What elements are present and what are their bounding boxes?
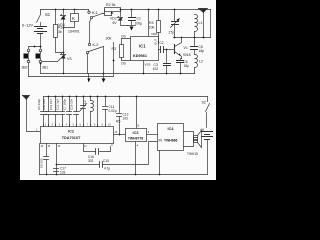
svg-text:C8 220: C8 220 <box>40 158 44 168</box>
svg-text:TWH666: TWH666 <box>164 139 177 143</box>
variable capacitor C19 <box>83 96 85 98</box>
resistor R3 <box>120 45 124 58</box>
capacitor C11 <box>55 96 57 98</box>
capacitor C1 <box>131 9 133 11</box>
wire bottom bus <box>40 174 208 176</box>
capacitor C6 <box>194 38 196 46</box>
wire K-1 pole down to K-2 <box>90 19 92 44</box>
svg-text:L1: L1 <box>199 21 203 25</box>
svg-text:103: 103 <box>60 171 66 175</box>
svg-text:103: 103 <box>123 117 129 121</box>
capacitor C2 <box>159 49 161 51</box>
svg-text:L2: L2 <box>199 60 203 64</box>
wire top bus <box>41 9 89 11</box>
wire IC2 pin down <box>56 144 58 175</box>
capacitor C16 bracket <box>84 144 111 152</box>
svg-text:C10 223: C10 223 <box>42 99 46 110</box>
inductor L1 <box>194 32 196 38</box>
capacitor C18 <box>76 96 78 98</box>
node VD1/K <box>63 27 65 29</box>
switch S2 <box>207 97 209 102</box>
wire lower ground line <box>41 73 195 75</box>
svg-text:C12 3p3: C12 3p3 <box>56 99 60 110</box>
capacitor C12 <box>62 96 64 98</box>
jack XS1 <box>39 49 42 52</box>
zener VD2 <box>120 9 122 11</box>
capacitor C3 <box>166 50 168 63</box>
svg-text:0.02µ: 0.02µ <box>109 109 117 113</box>
capacitor C17 <box>54 169 59 172</box>
svg-text:C7 180p: C7 180p <box>63 99 67 110</box>
wire tank line <box>174 37 211 39</box>
pin VSS <box>143 61 145 74</box>
svg-text:OUT: OUT <box>154 39 158 46</box>
IC1 KD9561 <box>148 9 150 11</box>
inductor L3 <box>90 96 92 98</box>
svg-text:VD2: VD2 <box>110 17 117 21</box>
svg-text:18p: 18p <box>199 49 205 53</box>
wire K-2 throw down <box>103 47 105 74</box>
svg-text:302: 302 <box>88 159 94 163</box>
svg-text:VD1: VD1 <box>58 23 65 27</box>
svg-text:OS: OS <box>121 35 126 39</box>
svg-text:30k: 30k <box>106 37 112 41</box>
svg-text:10k: 10k <box>149 26 155 30</box>
svg-text:100µ: 100µ <box>135 22 143 26</box>
svg-text:6V: 6V <box>113 21 118 25</box>
capacitor C5 <box>181 59 182 61</box>
svg-text:3B1: 3B1 <box>42 66 48 70</box>
svg-text:TDA7010T: TDA7010T <box>62 136 81 140</box>
svg-text:IC4: IC4 <box>168 127 175 131</box>
inductor L2 <box>194 50 196 55</box>
pin OS bottom <box>122 58 131 61</box>
antenna W2 <box>23 96 30 100</box>
white paper field <box>20 0 216 180</box>
svg-text:K: K <box>72 16 75 21</box>
wire jack XS2 down <box>28 63 30 77</box>
svg-text:6~12V: 6~12V <box>22 24 34 28</box>
ground under C1 <box>131 21 133 26</box>
svg-text:OS: OS <box>121 62 126 66</box>
capacitor C10 <box>48 96 50 98</box>
svg-text:IC2: IC2 <box>68 130 74 134</box>
capacitor C8 <box>46 144 48 157</box>
pin SEL stub <box>158 43 160 45</box>
svg-text:4.7µ: 4.7µ <box>104 167 110 171</box>
zener VD1 <box>63 9 65 11</box>
thyristor VS <box>63 28 65 55</box>
svg-text:IN: IN <box>159 139 163 143</box>
svg-text:IC3: IC3 <box>133 131 139 135</box>
svg-text:R3: R3 <box>112 47 117 51</box>
wire cap bus <box>44 96 208 98</box>
ground arrow 2 <box>103 73 105 75</box>
wire OS return line <box>29 43 114 77</box>
capacitor C14 <box>105 96 107 98</box>
svg-text:K-2: K-2 <box>93 43 99 47</box>
svg-text:3B2: 3B2 <box>22 66 28 70</box>
capacitor C7 <box>69 96 71 98</box>
right rail from bus <box>210 10 212 38</box>
svg-text:K-1: K-1 <box>92 11 98 15</box>
battery GB 6-12V <box>35 27 47 34</box>
wire jack XS1 down <box>40 63 42 74</box>
ground arrow 1 <box>88 74 90 79</box>
svg-text:27p: 27p <box>169 31 175 35</box>
svg-text:R2 5k: R2 5k <box>106 3 116 7</box>
wire battery to jacks <box>29 34 41 49</box>
capacitor C13 <box>119 96 121 98</box>
resistor R1 <box>55 9 57 11</box>
svg-text:C1: C1 <box>137 17 141 21</box>
wire pin column <box>97 96 99 98</box>
IC2 pin ticks top <box>44 125 106 127</box>
svg-text:TWH15: TWH15 <box>187 152 198 156</box>
svg-text:C11 104: C11 104 <box>49 99 53 110</box>
pin OS top <box>122 39 131 45</box>
svg-text:V1: V1 <box>184 46 188 50</box>
wire IC2 to IC3 <box>114 134 126 136</box>
relay contact K-1 <box>88 10 90 12</box>
svg-text:3k: 3k <box>58 30 62 34</box>
relay coil K <box>74 9 76 11</box>
transistor V1 <box>174 45 176 54</box>
svg-text:KD9561: KD9561 <box>133 54 147 58</box>
svg-text:C15: C15 <box>103 159 109 163</box>
resistor R4 <box>158 9 160 11</box>
svg-text:9018: 9018 <box>183 53 191 57</box>
svg-text:C2: C2 <box>160 41 164 45</box>
svg-text:18p: 18p <box>184 64 190 68</box>
svg-text:C18 104: C18 104 <box>70 99 74 110</box>
wire audio line with C15 <box>57 164 100 166</box>
capacitor C9 <box>43 97 45 112</box>
svg-text:IC1: IC1 <box>139 44 146 49</box>
antenna W1 <box>203 12 205 38</box>
svg-text:L2: L2 <box>83 100 87 104</box>
jack XS2 <box>27 49 30 52</box>
svg-text:C9 330p: C9 330p <box>37 99 41 110</box>
svg-text:1S4001: 1S4001 <box>68 30 80 34</box>
svg-text:R4: R4 <box>149 21 154 25</box>
potentiometer R2 <box>103 10 105 14</box>
IC3 TWH8778 <box>136 97 138 129</box>
svg-text:102: 102 <box>153 67 159 71</box>
node OS return <box>113 60 115 62</box>
speaker BL <box>184 132 194 147</box>
svg-text:R5: R5 <box>116 120 120 124</box>
variable capacitor C4 <box>174 9 176 11</box>
switch S1 <box>37 10 41 26</box>
IC2 pin numbers <box>41 125 118 148</box>
svg-text:VS: VS <box>67 57 72 61</box>
svg-text:TWH8778: TWH8778 <box>128 137 143 141</box>
IC2 TDA7010T <box>41 127 114 144</box>
relay contact K-2 <box>88 43 90 45</box>
svg-text:VSS: VSS <box>145 63 151 67</box>
IC4 TWH666 <box>158 124 184 151</box>
svg-text:S2: S2 <box>202 101 206 105</box>
svg-text:S1: S1 <box>45 12 51 17</box>
